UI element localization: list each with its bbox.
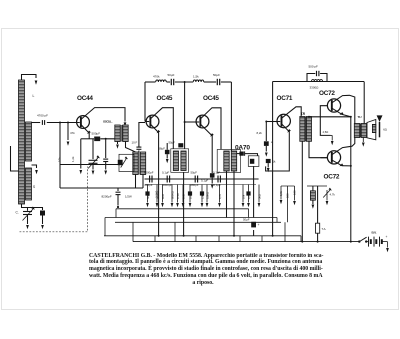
svg-text:4,7k: 4,7k — [247, 193, 251, 199]
node junction x68 — [67, 122, 69, 124]
wire driver primary bottom — [301, 141, 303, 241]
wire OC71 left box edge — [272, 82, 274, 236]
capacitor 8200pF — [116, 191, 121, 193]
arrow antenna tap down — [35, 170, 38, 174]
wire OC72 lower collector — [332, 138, 355, 155]
wire bus y222.3 — [115, 221, 281, 223]
wire antenna top hook — [22, 75, 37, 81]
electrolytic 50uF bottom — [251, 222, 256, 228]
node switch left — [358, 240, 360, 242]
core oscillator coil — [120, 125, 122, 142]
wire x80.8 down — [80, 139, 82, 169]
capacitor 50uF c — [194, 176, 196, 183]
oscillator tank coil right — [140, 152, 145, 175]
oscillator tank coil left — [133, 152, 138, 175]
wire cap x105.7 stem — [105, 139, 107, 158]
wire pad ground — [105, 162, 107, 170]
svg-text:B.V.: B.V. — [372, 231, 378, 235]
svg-text:50μF: 50μF — [146, 193, 150, 199]
arrow 47k down — [67, 142, 70, 146]
wire OC72 upper collector — [332, 95, 355, 123]
driver transformer secondary — [306, 117, 311, 142]
capacitor 500uF emitter bypass — [94, 137, 100, 142]
wire ladder x262 — [261, 236, 263, 242]
wire hanging row — [145, 184, 256, 186]
stub arrow x294.5 — [294, 186, 296, 201]
resistor 1k stub — [266, 159, 271, 163]
arrow trimmer diag — [121, 158, 127, 167]
wire IF2 secondary down — [183, 172, 185, 236]
transistor OC44 — [77, 116, 90, 129]
svg-text:1kΩ: 1kΩ — [182, 194, 186, 199]
trimmer box oscillator — [119, 154, 134, 171]
resistor stub 4,7k x248.5 — [248, 185, 250, 203]
wire OC71 emitter — [266, 124, 290, 171]
wire emitter bus — [81, 138, 94, 140]
IF transformer 3 can — [217, 150, 240, 173]
wire ladder x301 — [300, 236, 302, 242]
svg-text:680pF: 680pF — [191, 183, 199, 187]
svg-text:100: 100 — [293, 190, 297, 195]
svg-text:470k: 470k — [153, 75, 160, 79]
node switch right — [365, 240, 367, 242]
wire speaker bottom link — [366, 136, 368, 138]
svg-text:8200pF: 8200pF — [102, 195, 112, 199]
svg-text:6,8kΩ: 6,8kΩ — [206, 192, 210, 199]
svg-text:8200pF: 8200pF — [144, 171, 154, 175]
resistor stub 100 x190.0 — [189, 185, 191, 203]
wire emitter bus right — [100, 138, 118, 140]
wire 8200 stub — [117, 188, 119, 191]
wire ladder x285 — [284, 222, 286, 241]
arrow battery ground — [386, 248, 389, 252]
wire rail drop to output — [363, 82, 365, 124]
svg-text:50μF: 50μF — [169, 141, 176, 145]
oscillator coil secondary — [123, 125, 128, 142]
wire x116 bus drop — [115, 209, 117, 218]
trimmer capacitor oscillator — [118, 160, 123, 165]
resistor stub 6,8kΩ x207.0 — [206, 185, 208, 203]
arrow antenna top to ground — [35, 81, 38, 85]
svg-text:6800Ω: 6800Ω — [156, 191, 160, 199]
stub arrow x281 — [280, 186, 282, 200]
node emitter common top — [350, 116, 352, 118]
wire x277 bus drop — [276, 218, 278, 223]
wire rail segment 3 — [175, 81, 193, 83]
wire diode to volume — [245, 154, 258, 156]
capacitor 0,1uF d — [217, 176, 219, 183]
driver transformer primary — [300, 117, 305, 142]
stub x287.5 — [287, 186, 289, 222]
wire rail segment 1 — [145, 81, 156, 83]
resistor 1.5k — [193, 80, 204, 82]
svg-text:1,5k: 1,5k — [193, 75, 199, 79]
wire coil bottom to tuning — [22, 204, 43, 210]
svg-text:0,1μF: 0,1μF — [162, 171, 169, 175]
node base OC45b — [184, 121, 186, 123]
node emitter common bottom — [350, 165, 352, 167]
arrow pad ground — [104, 171, 107, 175]
wire IF3 secondary bottom — [233, 171, 235, 236]
wire OC72 lower base — [321, 157, 328, 159]
resistor stub 10k x243.0 — [242, 185, 244, 203]
node emitter junction — [105, 138, 107, 140]
wire rail segment 4 — [204, 81, 216, 83]
svg-text:T.R: T.R — [301, 112, 306, 116]
resistor stub 1kΩ x183.0 — [182, 185, 184, 203]
transistor OC45 first — [146, 115, 159, 128]
resistor stub 50μF x147.5 — [147, 185, 149, 203]
wire rail drop x145 — [144, 82, 146, 122]
wire base OC45b — [185, 121, 200, 123]
svg-text:C.: C. — [16, 211, 19, 215]
wire IF3 to diode — [237, 153, 240, 155]
core output transformer — [359, 124, 361, 138]
wire rail drop x231.4 — [230, 82, 232, 152]
svg-text:10 F: 10 F — [132, 141, 138, 145]
wire mid row — [145, 178, 259, 180]
wire rail drop x184.6 — [184, 82, 186, 122]
wire left return — [11, 146, 19, 171]
wire ladder x155 — [154, 236, 156, 242]
capacitor 500pF feedback — [316, 71, 318, 76]
svg-text:0,1μF: 0,1μF — [213, 171, 220, 175]
arrow C2 ground — [92, 171, 95, 175]
svg-text:5kΩ: 5kΩ — [258, 194, 262, 199]
wire IF3 primary bottom — [226, 171, 228, 218]
svg-text:68μF: 68μF — [159, 147, 166, 151]
resistor 3300 — [312, 79, 323, 81]
wire C1 stem — [27, 208, 29, 211]
resistor T.A. — [316, 223, 320, 233]
node bus bias — [317, 241, 319, 243]
svg-text:10k: 10k — [58, 157, 62, 162]
wire rail segment 2 — [167, 81, 171, 83]
wire cap10 to OC45 base rail — [139, 123, 145, 148]
svg-text:6Ω: 6Ω — [383, 128, 387, 132]
svg-text:OC45: OC45 — [203, 95, 219, 102]
transistor OC45 second — [196, 115, 209, 128]
svg-text:50μF: 50μF — [191, 171, 198, 175]
wire volume lower — [253, 230, 255, 236]
wire rail right section — [273, 81, 364, 83]
capacitor 1uF volume — [250, 159, 254, 164]
antenna coil L1 secondary winding upper — [26, 122, 32, 161]
node junction x60 — [59, 122, 61, 124]
svg-text:6800Ω: 6800Ω — [171, 191, 175, 199]
capacitor osc pad — [103, 158, 108, 160]
wire osc box bus B — [60, 187, 143, 189]
thermistor winding — [310, 191, 315, 200]
svg-text:0A70: 0A70 — [235, 145, 250, 152]
wire base OC71 vertical — [265, 122, 267, 142]
svg-text:OC71: OC71 — [277, 95, 293, 102]
wire bias top link — [307, 185, 327, 187]
resistor stub 1kΩ x162.5 — [162, 185, 164, 203]
svg-text:3300Ω: 3300Ω — [310, 86, 320, 90]
node driver secondary top — [308, 116, 310, 118]
wire OC45b collector — [200, 108, 221, 150]
arrow emitter cap ground — [211, 185, 214, 189]
svg-text:47k: 47k — [70, 131, 75, 135]
svg-text:1/2W: 1/2W — [125, 195, 132, 199]
svg-text:5,6k: 5,6k — [279, 190, 283, 196]
wire x248.6 bus drop — [248, 209, 250, 218]
wire ladder x240 — [239, 236, 241, 242]
node bus x158 — [158, 235, 160, 237]
wire bias h 186 — [281, 185, 295, 187]
wire base OC45a — [145, 121, 149, 123]
wire battery end down — [387, 242, 389, 248]
wire feedback left — [307, 74, 315, 82]
wire tank top to cap — [138, 151, 140, 153]
wire ladder x196 — [195, 236, 197, 242]
wire below cap — [211, 178, 213, 184]
capacitor 10pF series — [136, 146, 141, 148]
capacitor 4700pF series — [41, 120, 43, 125]
wire OC45a emitter — [150, 124, 158, 236]
svg-text:4700: 4700 — [176, 193, 180, 199]
wire volume down — [253, 166, 255, 217]
wire osc box bus A — [60, 164, 119, 166]
wire C1 to ground — [27, 215, 29, 225]
wire CT1 ground — [42, 216, 44, 225]
wire OC44 collector — [81, 108, 125, 122]
wire OC44 emitter — [81, 125, 89, 139]
svg-text:50μF: 50μF — [243, 218, 250, 222]
wire cap to OC44 base — [47, 122, 80, 124]
volume control box — [248, 156, 259, 167]
svg-text:4,5Ω: 4,5Ω — [323, 130, 329, 134]
speaker cone — [367, 120, 376, 140]
antenna coil L1 secondary winding lower — [26, 168, 32, 200]
node OC71 base junction — [265, 121, 267, 123]
core tank coil — [138, 152, 140, 175]
wire OC72 upper base — [320, 106, 330, 136]
svg-text:5000pF: 5000pF — [163, 183, 173, 187]
capacitor 50uF rail 1 — [170, 79, 172, 85]
wire OC45a collector — [150, 108, 173, 149]
wire ladder x175 — [174, 222, 176, 241]
wire rail segment 5 — [221, 81, 232, 83]
capacitor 68uF stub — [166, 143, 168, 150]
wire OC72 upper emitter — [332, 108, 351, 117]
IF transformer 2 can — [171, 149, 189, 173]
wire antenna tap — [32, 165, 37, 168]
svg-text:T.U: T.U — [358, 115, 362, 119]
jack plug symbol — [377, 115, 383, 122]
capacitor 50uF OC71 base — [264, 141, 269, 146]
wire below base cap — [265, 146, 267, 152]
arrow x80.8 ground — [79, 170, 82, 174]
svg-text:4,7k: 4,7k — [330, 193, 336, 197]
node bus x272 — [272, 235, 274, 237]
svg-text:S: S — [33, 185, 35, 189]
wire base OC71 — [266, 121, 280, 123]
svg-text:1k: 1k — [273, 160, 277, 164]
svg-text:4,7k: 4,7k — [218, 193, 222, 199]
wire C2 ground — [92, 163, 94, 169]
dashed gang link tuning — [20, 167, 88, 232]
svg-text:10k: 10k — [242, 194, 246, 199]
capacitor 50uF IF2 top — [178, 143, 183, 147]
svg-text:OSCILL.: OSCILL. — [103, 119, 113, 123]
oscillator coil primary — [115, 125, 120, 142]
resistor stub 6800Ω x172.0 — [171, 185, 173, 203]
battery B1 — [368, 237, 370, 247]
node bus x234 — [233, 235, 235, 237]
wire trimmer C2 stem — [92, 139, 94, 159]
variable capacitor C2 oscillator — [89, 159, 98, 161]
wire ladder x105 — [104, 218, 106, 236]
node rail x184 — [184, 81, 186, 83]
wire bias vertical x60 — [59, 123, 61, 189]
resistor stub 4,7k x219.5 — [219, 185, 221, 203]
svg-text:50μF: 50μF — [168, 73, 175, 77]
svg-text:OC72: OC72 — [319, 90, 335, 97]
wire OC45b emitter — [200, 124, 212, 173]
capacitor 0,1uF b — [166, 176, 168, 183]
svg-text:1,2k: 1,2k — [71, 156, 75, 162]
core driver transformer — [304, 117, 306, 142]
wire speaker top link — [366, 124, 368, 126]
transistor OC72 upper — [327, 99, 340, 112]
node bus x183 — [183, 235, 185, 237]
arrow collector into oscillator coil — [124, 122, 127, 126]
arrow base bias ground — [331, 135, 333, 140]
diode 0A70 — [239, 152, 243, 156]
wire ladder x219 — [218, 236, 220, 242]
wire x184.6 lower — [184, 122, 186, 149]
resistor stub 4700 x177.5 — [177, 185, 179, 203]
wire antenna to base OC44 — [32, 122, 41, 124]
wire 8200 to node — [117, 195, 119, 206]
svg-text:680pF: 680pF — [145, 183, 153, 187]
wire bias vertical x317.6 — [317, 186, 319, 242]
resistor stub 15k x202.0 — [201, 185, 203, 203]
wire emitter common vertical — [350, 117, 352, 242]
svg-text:T.A.: T.A. — [322, 227, 327, 231]
node 8200 bottom — [117, 206, 119, 208]
wire bus y241.6 — [133, 241, 359, 243]
node bus driver primary — [301, 241, 303, 243]
wire driver sec bottom to lower base — [309, 141, 327, 157]
wire tank bottoms — [135, 175, 137, 189]
svg-text:100: 100 — [189, 194, 193, 199]
variable capacitor C1 — [23, 211, 32, 213]
switch lever — [359, 237, 366, 241]
wire bus y235.8 — [104, 235, 301, 237]
arrow C1 ground — [26, 225, 29, 229]
wire OC72 lower emitter — [332, 160, 351, 166]
node bus emitter — [350, 241, 352, 243]
IF3 winding primary — [224, 151, 229, 171]
capacitor 50uF rail 2 — [216, 79, 218, 85]
svg-text:50μF: 50μF — [213, 73, 220, 77]
wire driver sec top across — [309, 116, 351, 118]
svg-text:500 pF: 500 pF — [309, 65, 319, 69]
svg-text:15k: 15k — [201, 194, 205, 199]
svg-text:1kΩ: 1kΩ — [161, 194, 165, 199]
resistor 470k — [156, 80, 167, 82]
capacitor 680pF a — [149, 176, 151, 183]
transistor OC72 lower — [327, 151, 340, 164]
earphone winding — [372, 124, 375, 132]
wire bus y208.8 — [116, 208, 249, 210]
arrow CT1 ground — [41, 225, 44, 229]
arrow output sec ground — [362, 138, 364, 143]
svg-text:8,2k: 8,2k — [257, 131, 263, 135]
output transformer secondary — [361, 124, 366, 138]
wire osc secondary to tank — [126, 142, 136, 153]
IF2 winding primary — [173, 151, 178, 171]
arrow base cap ground — [265, 153, 268, 157]
svg-text:OC72: OC72 — [324, 174, 340, 181]
IF2 winding secondary — [181, 151, 186, 171]
resistor stub 6800Ω x157.0 — [156, 185, 158, 203]
resistor stub 5kΩ x259.0 — [258, 185, 260, 203]
resistor 47k AGC stub — [67, 123, 69, 141]
svg-text:+: + — [386, 235, 388, 239]
transistor OC71 — [277, 114, 290, 127]
wire ladder x133 — [132, 222, 134, 241]
capacitor 0.1uF emitter — [210, 173, 215, 177]
svg-text:500: 500 — [286, 193, 290, 198]
svg-text:4700 pF: 4700 pF — [37, 114, 48, 118]
svg-text:+: + — [258, 223, 260, 227]
svg-text:500μF: 500μF — [92, 131, 101, 135]
svg-text:L: L — [33, 94, 35, 98]
wire feedback right — [320, 74, 327, 82]
wire OC71 collector — [282, 107, 302, 119]
arrow oscillator coil left ground — [117, 142, 119, 145]
svg-text:OC44: OC44 — [77, 95, 93, 102]
antenna coil L1 primary winding — [19, 80, 25, 204]
wire bus y217.5 — [105, 217, 277, 219]
output transformer primary — [354, 124, 359, 138]
trimmer capacitor CT1 — [40, 211, 45, 216]
potentiometer 4,7k — [326, 190, 328, 201]
svg-text:+: + — [271, 141, 273, 145]
IF3 winding secondary — [231, 151, 236, 171]
svg-text:OC45: OC45 — [157, 95, 173, 102]
